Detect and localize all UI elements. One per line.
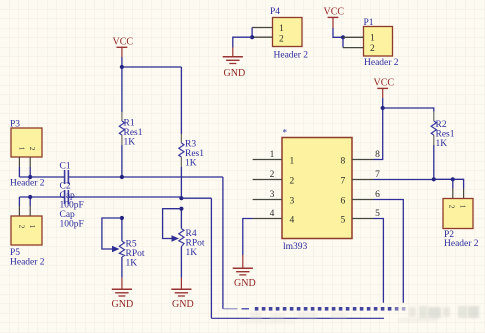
node P5 junction on C2 wire (28, 195, 32, 199)
svg-text:P3: P3 (10, 120, 20, 130)
svg-text:VCC: VCC (374, 78, 395, 89)
svg-text:2: 2 (448, 205, 457, 209)
wire U1 pin5 down run (374, 219, 384, 303)
svg-text:1: 1 (279, 24, 284, 34)
wire P3-2 to C1 net (29, 167, 31, 177)
svg-text:GND: GND (172, 299, 194, 310)
svg-text:1K: 1K (126, 259, 138, 269)
power port VCC (net VCC, left, above R1) (113, 37, 134, 58)
svg-text:1: 1 (17, 147, 26, 151)
resistor R2 (431, 112, 436, 146)
svg-text:Header 2: Header 2 (10, 258, 45, 268)
svg-text:2: 2 (17, 225, 26, 229)
node G junction (P2 pin 1 branch) (451, 177, 455, 181)
svg-text:1: 1 (370, 34, 375, 44)
svg-text:Res1: Res1 (185, 149, 204, 159)
pin P4-1 stub (252, 27, 272, 29)
svg-text:6: 6 (341, 197, 346, 207)
svg-text:1: 1 (459, 205, 468, 209)
svg-text:RPot: RPot (126, 249, 145, 259)
svg-text:2: 2 (279, 35, 284, 45)
wire VCC rail horizontal to R3 branch (122, 66, 181, 68)
pin P4-2 stub (252, 36, 272, 38)
wire C2 net right segment to node D (69, 196, 181, 198)
node R4 wiper junction (179, 207, 183, 211)
wire bottom run (C2 net) (211, 317, 384, 319)
wire R4 wiper loop (163, 209, 182, 239)
pin U1-5 stub (352, 218, 374, 220)
wire P1 pins join (342, 37, 344, 47)
resistor R1 (119, 112, 124, 145)
svg-text:R1: R1 (124, 119, 135, 129)
connector P5 (Header 2) (11, 216, 42, 245)
svg-text:GND: GND (112, 299, 134, 310)
svg-text:1K: 1K (124, 138, 136, 148)
wire VCC stub to node E (382, 98, 384, 108)
potentiometer R5 (RPot) (119, 218, 124, 257)
pin P3-2 stub (29, 157, 31, 167)
wire R3 bottom pin to node D (180, 167, 182, 198)
watermark smudges (240, 306, 479, 324)
node E junction (VCC / pin8 / R2) (381, 106, 385, 110)
node P4 junction (250, 35, 254, 39)
svg-text:7: 7 (341, 177, 346, 187)
svg-text:1: 1 (270, 150, 275, 160)
svg-text:1: 1 (28, 225, 37, 229)
svg-text:R4: R4 (186, 229, 197, 239)
svg-text:2: 2 (270, 170, 275, 180)
svg-text:1K: 1K (436, 139, 448, 149)
svg-text:P5: P5 (10, 248, 20, 258)
wire VCC stub to junction A (121, 57, 123, 67)
svg-text:Cap: Cap (60, 191, 76, 201)
ground GND (below R5) (112, 278, 134, 310)
connector P2 (Header 2) (443, 199, 473, 229)
capacitor C1 (65, 170, 69, 184)
pin P5-2 stub (29, 206, 31, 216)
wire dashed run lead-in (223, 308, 238, 310)
svg-text:1: 1 (290, 157, 295, 167)
svg-text:2: 2 (290, 177, 295, 187)
svg-text:7: 7 (375, 170, 380, 180)
wire P5-2 to C2 net (29, 197, 31, 206)
op-amp U1 LM393 body (282, 128, 352, 253)
wire C2 net left segment (19, 196, 64, 198)
svg-text:C1: C1 (60, 162, 71, 172)
node D junction (R3 bottom on C2 net) (179, 196, 183, 200)
svg-text:R2: R2 (436, 120, 447, 130)
svg-text:100pF: 100pF (60, 220, 84, 230)
pin P1-1 stub (343, 36, 364, 38)
wire C1 net right segment to corner (69, 176, 223, 178)
svg-text:lm393: lm393 (283, 242, 308, 252)
wire P4 pins join (251, 28, 253, 38)
svg-text:8: 8 (341, 157, 346, 167)
wire P2 pin2 branch (453, 179, 464, 188)
svg-text:Header 2: Header 2 (364, 58, 399, 68)
pin U1-7 stub (352, 179, 374, 181)
connector P4 (Header 2) (273, 18, 303, 47)
R4 wiper arrow (172, 235, 180, 241)
svg-text:RPot: RPot (186, 239, 205, 249)
connector P3 (Header 2) (11, 128, 42, 157)
svg-text:GND: GND (224, 68, 246, 79)
svg-text:2: 2 (28, 147, 37, 151)
svg-text:6: 6 (375, 190, 380, 200)
svg-text:GND: GND (234, 278, 256, 289)
wire R5 wiper loop (102, 218, 122, 249)
capacitor C2 (65, 190, 69, 204)
pin U1-1 stub (253, 159, 282, 161)
ground GND (below R4) (171, 278, 193, 310)
wire VCC to P1 (333, 28, 343, 37)
svg-text:4: 4 (290, 216, 295, 226)
wire C2 net from node D to outer corner (181, 197, 211, 199)
connector P1 (Header 2) (364, 27, 393, 57)
svg-text:8: 8 (375, 150, 380, 160)
svg-text:4: 4 (270, 209, 275, 219)
pin U1-8 stub (352, 159, 374, 161)
svg-text:C2: C2 (60, 182, 71, 192)
ground GND (P4) (223, 48, 245, 80)
wire P2 pin1 drop (452, 179, 454, 188)
node R5 wiper junction (120, 216, 124, 220)
wire outer corner down (C2 net to bottom run) (210, 198, 212, 318)
svg-text:5: 5 (375, 209, 380, 219)
pin P2-2 stub (463, 189, 465, 199)
svg-text:Header 2: Header 2 (274, 51, 309, 61)
wire dashed segments (255, 307, 406, 311)
svg-text:VCC: VCC (113, 37, 134, 48)
ground GND (U1 pin4) (233, 255, 256, 289)
wire inner corner down (C1 net to dashed run) (222, 177, 224, 309)
wire R4 bottom to GND stub (180, 247, 182, 278)
svg-text:P1: P1 (364, 18, 374, 28)
svg-text:2: 2 (370, 44, 375, 54)
svg-text:R3: R3 (185, 140, 196, 150)
node F junction (R2 on pin7 net) (432, 177, 436, 181)
wire R1 bottom pin to node B (121, 145, 123, 177)
potentiometer R4 (RPot) (179, 209, 184, 247)
svg-text:1K: 1K (186, 248, 198, 258)
pin U1-6 stub (352, 199, 374, 201)
svg-text:Header 2: Header 2 (10, 179, 45, 189)
svg-text:Header 2: Header 2 (444, 239, 479, 249)
power port VCC (net VCC, right, above R2) (374, 78, 395, 99)
node P3 junction on C1 wire (28, 175, 32, 179)
svg-text:R5: R5 (126, 240, 137, 250)
pin U1-4 stub (253, 218, 282, 220)
R5 wiper arrow (112, 246, 120, 252)
svg-text:3: 3 (290, 197, 295, 207)
svg-text:Res1: Res1 (124, 128, 143, 138)
pin U1-2 stub (253, 179, 282, 181)
wire P5-1 to C2 net (18, 197, 20, 206)
power port VCC (net VCC, at P1) (324, 7, 345, 29)
node B junction (R1 bottom on C1 net) (120, 175, 124, 179)
svg-text:P4: P4 (270, 7, 280, 17)
svg-text:100pF: 100pF (60, 201, 84, 211)
node A junction (VCC rail split) (120, 65, 124, 69)
wire junction A down to R1 top pin (121, 67, 123, 112)
wire R2 bottom to pin7 net (433, 145, 435, 179)
node P1 junction (341, 35, 345, 39)
svg-text:VCC: VCC (324, 7, 345, 18)
wire R3 branch vertical down to R3 top pin (180, 67, 182, 134)
wire R5 bottom to GND stub (121, 257, 123, 278)
wire U1 pin6 down run (374, 200, 404, 303)
pin U1-3 stub (253, 199, 282, 201)
wire C1 net left segment (19, 176, 64, 178)
wire U1 pin8 up to node E (374, 108, 383, 160)
wire U1 pin7 net (374, 179, 434, 181)
svg-text:5: 5 (341, 216, 346, 226)
svg-text:1K: 1K (185, 159, 197, 169)
pin P2-1 stub (452, 189, 454, 199)
resistor R3 (179, 134, 184, 167)
wire pin7 net to P2 (434, 178, 453, 180)
pin P5-1 stub (18, 206, 20, 216)
wire U1 pin4 to GND (243, 219, 253, 256)
svg-text:Cap: Cap (60, 210, 76, 220)
pin P3-1 stub (18, 157, 20, 167)
wire P3-1 to C1 net (18, 167, 20, 177)
wire node E to R2 top (383, 108, 434, 112)
pin P1-2 stub (343, 47, 364, 49)
svg-text:Res1: Res1 (436, 130, 455, 140)
svg-text:*: * (283, 128, 288, 138)
svg-text:3: 3 (270, 190, 275, 200)
wire P4 to GND corner (233, 37, 252, 47)
